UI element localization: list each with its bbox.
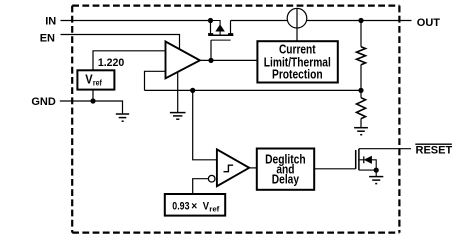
svg-text:EN: EN	[40, 32, 55, 44]
svg-text:0.93: 0.93	[172, 200, 189, 212]
svg-text:ref: ref	[209, 204, 220, 213]
svg-text:IN: IN	[45, 15, 56, 27]
svg-text:1.220: 1.220	[98, 57, 124, 69]
svg-text:Protection: Protection	[272, 67, 323, 82]
svg-text:×: ×	[191, 200, 197, 212]
svg-text:Delay: Delay	[272, 171, 300, 186]
svg-text:RESET: RESET	[416, 145, 453, 157]
svg-text:OUT: OUT	[417, 17, 441, 29]
svg-text:ref: ref	[93, 79, 102, 88]
svg-text:GND: GND	[31, 96, 56, 108]
